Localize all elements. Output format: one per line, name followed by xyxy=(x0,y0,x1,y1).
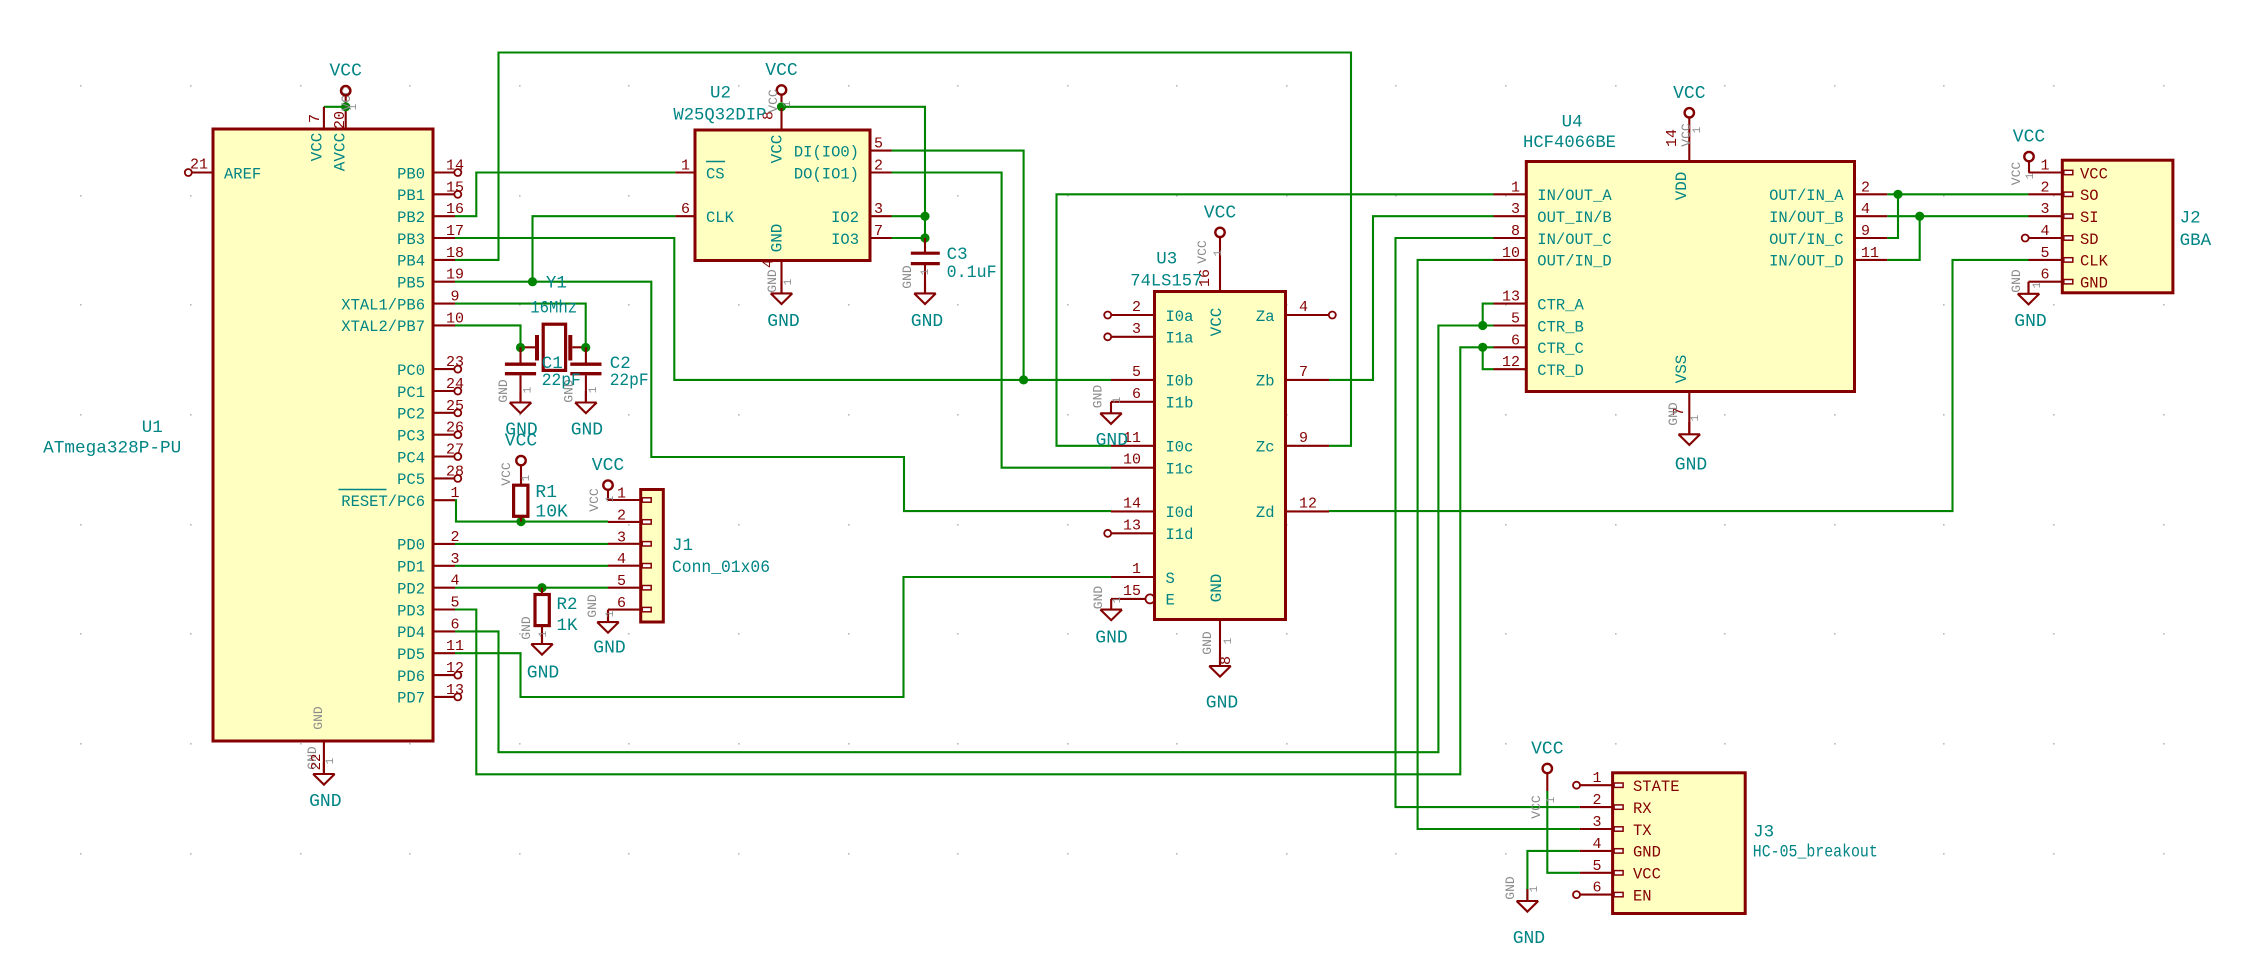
svg-text:1: 1 xyxy=(2032,281,2044,288)
svg-text:1: 1 xyxy=(1132,561,1141,578)
svg-text:Za: Za xyxy=(1256,308,1275,326)
svg-text:VCC: VCC xyxy=(766,89,781,113)
svg-text:GND: GND xyxy=(571,421,603,441)
svg-text:1: 1 xyxy=(2040,158,2049,175)
svg-text:1: 1 xyxy=(920,268,932,275)
svg-text:PB1: PB1 xyxy=(397,187,425,205)
svg-text:STATE: STATE xyxy=(1633,778,1680,796)
svg-text:22pF: 22pF xyxy=(610,371,649,391)
svg-text:VSS: VSS xyxy=(1673,355,1691,384)
svg-text:3: 3 xyxy=(450,551,459,568)
svg-text:S: S xyxy=(1166,570,1175,588)
svg-text:GND: GND xyxy=(2014,312,2046,332)
svg-text:PB4: PB4 xyxy=(397,253,425,271)
svg-text:13: 13 xyxy=(1123,517,1141,534)
svg-text:3: 3 xyxy=(1132,321,1141,338)
svg-text:AVCC: AVCC xyxy=(332,133,350,171)
svg-text:GND: GND xyxy=(765,269,780,293)
svg-text:1: 1 xyxy=(783,278,795,285)
svg-text:10K: 10K xyxy=(535,503,568,523)
svg-text:CTR_D: CTR_D xyxy=(1537,362,1584,380)
svg-text:2: 2 xyxy=(874,158,883,175)
svg-text:GND: GND xyxy=(769,224,787,253)
svg-text:GND: GND xyxy=(1503,876,1518,900)
svg-text:1K: 1K xyxy=(557,616,579,636)
svg-text:1: 1 xyxy=(782,100,794,107)
svg-text:4: 4 xyxy=(1861,201,1870,218)
svg-text:GND: GND xyxy=(1633,844,1661,862)
svg-text:GND: GND xyxy=(2080,275,2108,293)
svg-text:6: 6 xyxy=(1592,880,1601,897)
svg-text:22: 22 xyxy=(309,754,325,771)
svg-text:AREF: AREF xyxy=(224,165,261,183)
svg-text:10: 10 xyxy=(446,310,464,327)
svg-text:VCC: VCC xyxy=(592,456,625,476)
svg-text:16Mhz: 16Mhz xyxy=(530,299,577,319)
svg-text:PC3: PC3 xyxy=(397,428,425,446)
svg-text:11: 11 xyxy=(446,638,464,655)
svg-text:18: 18 xyxy=(446,245,464,262)
svg-text:I0d: I0d xyxy=(1166,504,1194,522)
svg-text:15: 15 xyxy=(1123,583,1141,600)
svg-text:ATmega328P-PU: ATmega328P-PU xyxy=(43,439,181,459)
svg-text:SO: SO xyxy=(2080,187,2099,205)
svg-text:PD5: PD5 xyxy=(397,646,425,664)
svg-text:5: 5 xyxy=(1592,858,1601,875)
svg-text:1: 1 xyxy=(1511,179,1520,196)
svg-text:2: 2 xyxy=(1861,179,1870,196)
svg-text:PB2: PB2 xyxy=(397,209,425,227)
svg-text:OUT/IN_C: OUT/IN_C xyxy=(1769,231,1843,249)
svg-text:6: 6 xyxy=(1511,332,1520,349)
svg-text:I0c: I0c xyxy=(1166,439,1194,457)
svg-text:1: 1 xyxy=(2025,172,2037,179)
svg-text:13: 13 xyxy=(446,682,464,699)
svg-text:1: 1 xyxy=(681,158,690,175)
svg-text:10: 10 xyxy=(1123,452,1141,469)
svg-text:GND: GND xyxy=(309,792,341,812)
svg-text:22pF: 22pF xyxy=(542,371,581,391)
svg-text:VCC: VCC xyxy=(1673,84,1706,104)
svg-text:28: 28 xyxy=(446,463,464,480)
svg-text:J2: J2 xyxy=(2180,209,2201,229)
svg-text:2: 2 xyxy=(2040,179,2049,196)
svg-text:VCC: VCC xyxy=(2013,128,2046,148)
svg-text:OUT/IN_D: OUT/IN_D xyxy=(1537,253,1611,271)
svg-text:12: 12 xyxy=(1299,495,1317,512)
svg-text:XTAL1/PB6: XTAL1/PB6 xyxy=(341,296,425,314)
svg-text:CS: CS xyxy=(706,165,725,183)
svg-text:VCC: VCC xyxy=(1679,123,1694,147)
svg-text:1: 1 xyxy=(1592,770,1601,787)
svg-text:4: 4 xyxy=(761,259,778,268)
svg-text:PD6: PD6 xyxy=(397,668,425,686)
svg-text:23: 23 xyxy=(446,354,464,371)
svg-text:I1d: I1d xyxy=(1166,526,1194,544)
svg-text:0.1uF: 0.1uF xyxy=(947,263,997,283)
svg-text:E: E xyxy=(1166,592,1175,610)
svg-text:OUT_IN/B: OUT_IN/B xyxy=(1537,209,1611,227)
svg-text:Zb: Zb xyxy=(1256,373,1275,391)
svg-text:GND: GND xyxy=(1091,385,1106,409)
svg-text:20: 20 xyxy=(332,111,349,129)
svg-text:6: 6 xyxy=(681,201,690,218)
svg-text:CLK: CLK xyxy=(706,209,735,227)
svg-text:CTR_A: CTR_A xyxy=(1537,296,1584,314)
svg-text:PD1: PD1 xyxy=(397,559,425,577)
svg-text:U1: U1 xyxy=(142,418,163,438)
svg-text:IN/OUT_A: IN/OUT_A xyxy=(1537,187,1612,205)
svg-text:GND: GND xyxy=(1208,574,1226,603)
svg-text:VCC: VCC xyxy=(329,62,362,82)
svg-text:GND: GND xyxy=(2009,269,2024,293)
svg-text:3: 3 xyxy=(874,201,883,218)
svg-text:PD7: PD7 xyxy=(397,690,425,708)
svg-text:TX: TX xyxy=(1633,822,1652,840)
svg-text:XTAL2/PB7: XTAL2/PB7 xyxy=(341,318,425,336)
svg-text:PD3: PD3 xyxy=(397,602,425,620)
svg-text:PC1: PC1 xyxy=(397,384,425,402)
svg-text:DI(IO0): DI(IO0) xyxy=(794,143,859,161)
svg-text:GND: GND xyxy=(1096,431,1128,451)
svg-text:Conn_01x06: Conn_01x06 xyxy=(672,558,770,578)
svg-text:19: 19 xyxy=(446,267,464,284)
svg-text:6: 6 xyxy=(1132,386,1141,403)
svg-text:I0a: I0a xyxy=(1166,308,1194,326)
svg-text:GND: GND xyxy=(900,265,915,289)
svg-text:CTR_C: CTR_C xyxy=(1537,340,1584,358)
svg-text:6: 6 xyxy=(450,616,459,633)
svg-text:15: 15 xyxy=(446,179,464,196)
svg-text:PD0: PD0 xyxy=(397,537,425,555)
svg-text:SI: SI xyxy=(2080,209,2099,227)
svg-text:IN/OUT_C: IN/OUT_C xyxy=(1537,231,1611,249)
svg-text:VCC: VCC xyxy=(1208,308,1226,337)
svg-text:4: 4 xyxy=(1592,836,1601,853)
svg-text:RX: RX xyxy=(1633,800,1652,818)
svg-text:9: 9 xyxy=(1861,223,1870,240)
svg-text:PC4: PC4 xyxy=(397,449,425,467)
svg-text:GND: GND xyxy=(585,594,600,618)
svg-text:J1: J1 xyxy=(672,536,693,556)
svg-text:12: 12 xyxy=(446,660,464,677)
svg-text:7: 7 xyxy=(307,114,324,123)
svg-text:26: 26 xyxy=(446,420,464,437)
svg-text:6: 6 xyxy=(2040,267,2049,284)
svg-text:GND: GND xyxy=(1675,455,1707,475)
svg-text:IO3: IO3 xyxy=(831,231,859,249)
svg-text:VCC: VCC xyxy=(1204,203,1237,223)
svg-text:PD4: PD4 xyxy=(397,624,425,642)
svg-text:9: 9 xyxy=(450,289,459,306)
svg-text:GND: GND xyxy=(311,706,326,730)
svg-text:4: 4 xyxy=(1299,299,1308,316)
svg-text:1: 1 xyxy=(538,630,550,637)
svg-text:GND: GND xyxy=(593,639,625,659)
svg-text:25: 25 xyxy=(446,398,464,415)
svg-text:J3: J3 xyxy=(1753,823,1774,843)
svg-text:VCC: VCC xyxy=(1531,740,1564,760)
svg-text:EN: EN xyxy=(1633,887,1652,905)
svg-text:IN/OUT_B: IN/OUT_B xyxy=(1769,209,1843,227)
svg-text:I1a: I1a xyxy=(1166,330,1194,348)
svg-text:VCC: VCC xyxy=(499,462,514,486)
svg-text:14: 14 xyxy=(1123,495,1141,512)
svg-text:4: 4 xyxy=(450,573,459,590)
svg-text:7: 7 xyxy=(1299,364,1308,381)
svg-text:U4: U4 xyxy=(1562,113,1583,133)
svg-text:1: 1 xyxy=(1213,249,1225,256)
svg-text:GND: GND xyxy=(1095,628,1127,648)
svg-text:14: 14 xyxy=(446,158,464,175)
svg-text:5: 5 xyxy=(874,136,883,153)
svg-text:1: 1 xyxy=(1546,796,1558,803)
svg-text:GND: GND xyxy=(519,616,534,640)
svg-text:GND: GND xyxy=(496,379,511,403)
svg-text:IO2: IO2 xyxy=(831,209,859,227)
svg-text:VCC: VCC xyxy=(1529,795,1544,819)
svg-text:I0b: I0b xyxy=(1166,373,1194,391)
svg-text:2: 2 xyxy=(1592,792,1601,809)
svg-text:21: 21 xyxy=(190,157,208,174)
svg-text:PD2: PD2 xyxy=(397,581,425,599)
svg-text:GND: GND xyxy=(1206,694,1238,714)
svg-text:VCC: VCC xyxy=(2009,162,2024,186)
svg-text:1: 1 xyxy=(348,103,360,110)
svg-text:GND: GND xyxy=(1513,929,1545,949)
svg-text:12: 12 xyxy=(1502,354,1520,371)
svg-text:5: 5 xyxy=(617,573,626,590)
svg-text:VCC: VCC xyxy=(505,432,538,452)
svg-text:PC0: PC0 xyxy=(397,362,425,380)
svg-text:W25Q32DIP: W25Q32DIP xyxy=(673,106,766,126)
svg-text:1: 1 xyxy=(1529,885,1541,892)
svg-text:C3: C3 xyxy=(947,245,968,265)
svg-text:GND: GND xyxy=(911,312,943,332)
svg-text:24: 24 xyxy=(446,376,464,393)
svg-text:GND: GND xyxy=(767,312,799,332)
svg-text:I1c: I1c xyxy=(1166,461,1194,479)
svg-text:1: 1 xyxy=(1223,637,1235,644)
svg-text:7: 7 xyxy=(874,223,883,240)
svg-text:3: 3 xyxy=(1592,814,1601,831)
svg-text:RESET/PC6: RESET/PC6 xyxy=(341,493,425,511)
svg-text:CTR_B: CTR_B xyxy=(1537,318,1584,336)
svg-text:GND: GND xyxy=(1666,402,1681,426)
svg-text:VCC: VCC xyxy=(309,133,327,162)
svg-text:4: 4 xyxy=(617,551,626,568)
svg-text:SD: SD xyxy=(2080,231,2099,249)
svg-text:Zd: Zd xyxy=(1256,504,1275,522)
svg-text:PC5: PC5 xyxy=(397,471,425,489)
svg-text:PB3: PB3 xyxy=(397,231,425,249)
svg-text:PC2: PC2 xyxy=(397,406,425,424)
svg-text:11: 11 xyxy=(1861,245,1879,262)
svg-text:8: 8 xyxy=(1218,656,1235,665)
svg-text:3: 3 xyxy=(617,529,626,546)
svg-text:GND: GND xyxy=(1200,631,1215,655)
svg-text:Zc: Zc xyxy=(1256,439,1275,457)
svg-text:9: 9 xyxy=(1299,430,1308,447)
svg-text:74LS157: 74LS157 xyxy=(1130,271,1202,291)
svg-text:IN/OUT_D: IN/OUT_D xyxy=(1769,253,1843,271)
svg-text:VCC: VCC xyxy=(765,61,798,81)
svg-text:1: 1 xyxy=(325,757,337,764)
svg-text:3: 3 xyxy=(1511,201,1520,218)
svg-text:6: 6 xyxy=(617,595,626,612)
svg-text:3: 3 xyxy=(2040,201,2049,218)
svg-text:HC-05_breakout: HC-05_breakout xyxy=(1753,843,1878,863)
svg-text:1: 1 xyxy=(521,474,533,481)
svg-text:GBA: GBA xyxy=(2180,231,2212,251)
svg-text:U3: U3 xyxy=(1156,250,1177,270)
svg-text:GND: GND xyxy=(1091,586,1106,610)
svg-text:1: 1 xyxy=(523,386,535,393)
svg-text:1: 1 xyxy=(617,486,626,503)
svg-text:13: 13 xyxy=(1502,289,1520,306)
svg-text:Y1: Y1 xyxy=(546,273,567,293)
svg-text:5: 5 xyxy=(2040,245,2049,262)
svg-text:2: 2 xyxy=(450,529,459,546)
svg-text:VCC: VCC xyxy=(1195,240,1210,264)
svg-text:VCC: VCC xyxy=(769,135,787,164)
svg-text:CLK: CLK xyxy=(2080,253,2109,271)
svg-text:GND: GND xyxy=(527,663,559,683)
svg-text:U2: U2 xyxy=(710,84,731,104)
svg-text:PB0: PB0 xyxy=(397,165,425,183)
svg-text:I1b: I1b xyxy=(1166,395,1194,413)
svg-text:16: 16 xyxy=(446,201,464,218)
svg-text:1: 1 xyxy=(605,495,617,502)
svg-text:27: 27 xyxy=(446,442,464,459)
svg-text:2: 2 xyxy=(1132,299,1141,316)
svg-text:1: 1 xyxy=(1112,396,1124,403)
svg-text:1: 1 xyxy=(588,386,600,393)
svg-text:8: 8 xyxy=(1511,223,1520,240)
svg-text:5: 5 xyxy=(1511,311,1520,328)
svg-text:1: 1 xyxy=(1690,414,1702,421)
svg-text:VCC: VCC xyxy=(2080,165,2108,183)
svg-text:R1: R1 xyxy=(535,483,557,503)
svg-text:R2: R2 xyxy=(557,595,578,615)
svg-text:5: 5 xyxy=(1132,364,1141,381)
svg-text:10: 10 xyxy=(1502,245,1520,262)
svg-text:VDD: VDD xyxy=(1673,172,1691,201)
svg-text:1: 1 xyxy=(1112,596,1124,603)
svg-text:4: 4 xyxy=(2040,223,2049,240)
svg-text:5: 5 xyxy=(450,595,459,612)
svg-text:HCF4066BE: HCF4066BE xyxy=(1523,133,1616,153)
svg-text:17: 17 xyxy=(446,223,464,240)
svg-text:1: 1 xyxy=(605,610,617,617)
svg-text:PB5: PB5 xyxy=(397,275,425,293)
svg-text:DO(IO1): DO(IO1) xyxy=(794,165,859,183)
svg-text:1: 1 xyxy=(1692,126,1704,133)
svg-text:OUT/IN_A: OUT/IN_A xyxy=(1769,187,1844,205)
svg-text:VCC: VCC xyxy=(587,488,602,512)
svg-text:1: 1 xyxy=(450,485,459,502)
svg-text:VCC: VCC xyxy=(1633,866,1661,884)
svg-text:2: 2 xyxy=(617,507,626,524)
